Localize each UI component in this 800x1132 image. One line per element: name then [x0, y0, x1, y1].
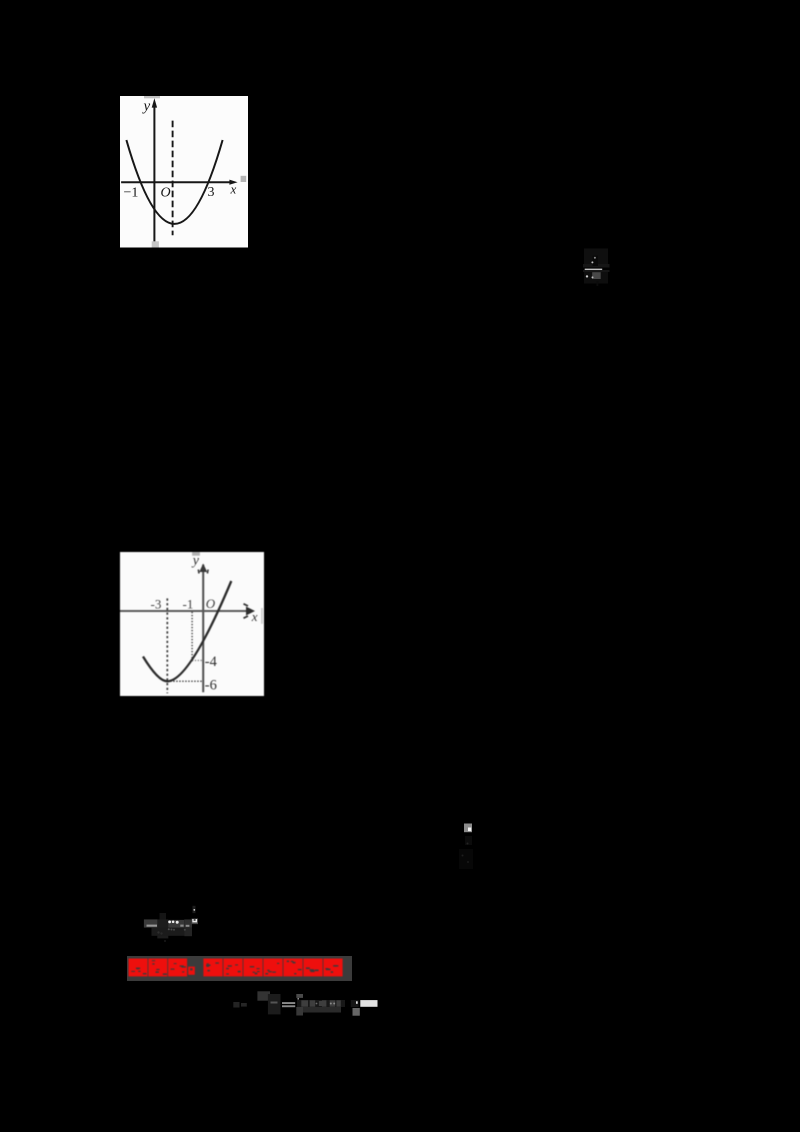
svg-text:3: 3 — [208, 185, 215, 200]
svg-text:-1: -1 — [183, 596, 194, 611]
gray block above expression — [296, 994, 303, 998]
red heading strip — [127, 956, 352, 980]
bright dots — [168, 921, 171, 924]
graph image 1: parabola y=(x+1)(x-3) white box — [120, 96, 248, 248]
y-axis — [153, 104, 155, 242]
fraction fragment — [257, 991, 270, 1000]
gray cursor bar at right edge — [261, 608, 263, 624]
svg-text:O: O — [206, 596, 216, 611]
svg-text:−1: −1 — [124, 185, 139, 200]
second row — [152, 928, 193, 936]
svg-text:y: y — [142, 99, 151, 115]
expression blocks — [297, 1000, 345, 1007]
x-axis — [121, 181, 231, 183]
gray dash (minus) — [147, 925, 158, 927]
bright dot before blank — [356, 1001, 358, 1004]
faint formula fragment row 1 — [140, 903, 210, 947]
y-axis arrowhead — [152, 98, 157, 107]
dotted horizontal at y=-4 — [192, 659, 203, 661]
dashed axis of symmetry x=1 — [172, 121, 174, 236]
y= faint — [233, 1002, 239, 1008]
graph image 2: parabola vertex (-3,-6) white box — [120, 550, 264, 696]
strip below expression — [301, 1007, 342, 1013]
dotted horizontal at y=-6 — [167, 680, 203, 682]
left gray column — [296, 1007, 303, 1016]
white background of image 1 — [120, 96, 248, 248]
equals sign — [282, 1002, 295, 1004]
svg-text:-4: -4 — [205, 654, 218, 670]
gray dashes — [180, 925, 183, 927]
small gray handle square with white dot — [455, 820, 480, 872]
y-axis — [202, 565, 204, 693]
svg-text:O: O — [161, 185, 171, 200]
svg-text:-3: -3 — [151, 596, 162, 611]
gray handle right of x-axis — [241, 176, 247, 182]
svg-text:y: y — [191, 554, 200, 569]
y-axis open arrowhead — [199, 564, 207, 573]
svg-text:-6: -6 — [205, 678, 217, 694]
dashed vertical at x=-3 — [166, 598, 168, 693]
gray tab above y label — [192, 552, 200, 556]
x-axis arrowhead — [229, 180, 237, 185]
dotted vertical at x=-1 — [191, 612, 193, 661]
white fraction bar — [585, 269, 603, 271]
gray handle at bottom of y-axis — [152, 241, 159, 247]
x-axis open arrowhead — [246, 607, 255, 616]
gray tab at top of image 1 — [144, 96, 160, 98]
faint fraction 3/2 fragment — [576, 245, 616, 293]
light blank box — [360, 1000, 377, 1007]
parabola curve — [143, 581, 231, 681]
bright u-mark — [192, 919, 198, 925]
svg-text:x: x — [230, 182, 237, 197]
dark block row — [144, 919, 158, 927]
red heading text blocks — [127, 956, 352, 979]
gray block below blank — [353, 1008, 360, 1016]
gray block in denominator — [592, 272, 601, 279]
x-axis — [120, 610, 252, 612]
svg-text:x: x — [251, 609, 258, 624]
white background of image 2 — [120, 552, 264, 696]
parabola curve — [126, 140, 222, 224]
faint formula row 2 with blank box — [230, 988, 380, 1018]
